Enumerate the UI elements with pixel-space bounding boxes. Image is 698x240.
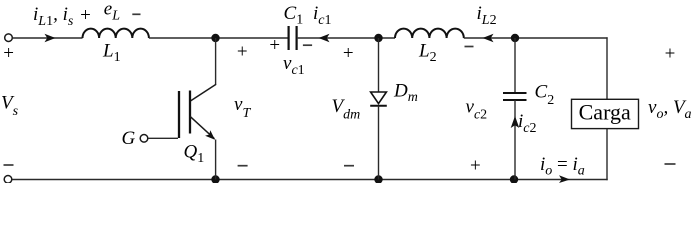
- node F capacitor C2 bottom junction: [510, 175, 518, 183]
- svg-text:vT: vT: [234, 94, 251, 121]
- svg-text:ic1: ic1: [313, 3, 332, 28]
- label minus output: [665, 163, 676, 165]
- svg-text:vc2: vc2: [466, 97, 488, 123]
- arrow i_c2 pointing up: [511, 116, 520, 128]
- transistor Q1 IGBT: [179, 38, 216, 180]
- arrow i_s on input wire: [45, 34, 56, 43]
- node D emitter junction bottom: [211, 175, 219, 183]
- svg-text:+: +: [269, 35, 280, 56]
- wire right vertical top to load: [606, 37, 608, 99]
- capacitor C2: [503, 93, 527, 100]
- svg-text:iL2: iL2: [477, 3, 497, 28]
- wire from C1 to L2: [298, 37, 395, 39]
- svg-text:L2: L2: [418, 41, 437, 66]
- node B diode top junction: [374, 34, 382, 42]
- arrow i_L2 pointing left: [483, 34, 494, 43]
- wire from L2 to right corner: [464, 37, 608, 39]
- svg-text:vc1: vc1: [283, 53, 305, 78]
- node E diode bottom junction: [374, 175, 382, 183]
- svg-text:io = ia: io = ia: [540, 154, 585, 179]
- svg-text:Q1: Q1: [184, 142, 205, 167]
- svg-text:Carga: Carga: [579, 100, 631, 125]
- svg-text:+: +: [3, 43, 14, 64]
- svg-text:G: G: [122, 128, 136, 149]
- wire diode branch bottom: [378, 106, 380, 180]
- svg-text:Vs: Vs: [1, 92, 19, 119]
- label minus L2: [465, 46, 474, 48]
- wire from L1 to C1: [149, 37, 288, 39]
- svg-text:+: +: [343, 43, 354, 64]
- svg-text:iL1, is: iL1, is: [33, 4, 74, 29]
- wire top-left from terminal to L1: [13, 37, 83, 39]
- terminal input bottom: [4, 176, 12, 184]
- label minus e_L: [132, 13, 140, 15]
- node C capacitor C2 top junction: [511, 34, 519, 42]
- wire diode branch top: [378, 38, 380, 92]
- wire gate lead: [148, 137, 178, 139]
- svg-text:+: +: [665, 44, 676, 65]
- label minus Vdm: [344, 165, 354, 167]
- svg-text:+: +: [470, 155, 481, 176]
- inductor L1: [83, 29, 149, 38]
- node A collector junction: [211, 34, 219, 42]
- svg-text:Vdm: Vdm: [332, 96, 361, 123]
- label minus Vs: [4, 164, 14, 166]
- label minus C1: [303, 44, 312, 46]
- svg-text:eL: eL: [104, 0, 120, 23]
- load box Carga: [572, 99, 639, 128]
- wire C2 branch bottom: [514, 100, 516, 180]
- svg-text:C1: C1: [284, 3, 304, 28]
- svg-text:+: +: [237, 42, 248, 63]
- svg-text:+: +: [80, 5, 91, 26]
- arrow i_o pointing right on bottom wire: [559, 175, 570, 183]
- svg-text:L1: L1: [102, 41, 121, 66]
- inductor L2: [395, 29, 464, 38]
- svg-text:Dm: Dm: [393, 80, 418, 105]
- terminal input top: [5, 34, 13, 42]
- svg-text:ic2: ic2: [518, 111, 537, 136]
- svg-text:vo, Va: vo, Va: [648, 97, 692, 122]
- capacitor C1: [289, 26, 297, 50]
- svg-text:C2: C2: [535, 81, 555, 108]
- diode Dm: [370, 92, 387, 106]
- bottom wire: [12, 179, 608, 181]
- arrow i_c1 pointing left: [319, 34, 330, 43]
- gate terminal G circle: [140, 135, 148, 143]
- wire right vertical below load: [606, 129, 608, 181]
- wire C2 branch top: [514, 38, 516, 93]
- label minus vT: [238, 165, 248, 167]
